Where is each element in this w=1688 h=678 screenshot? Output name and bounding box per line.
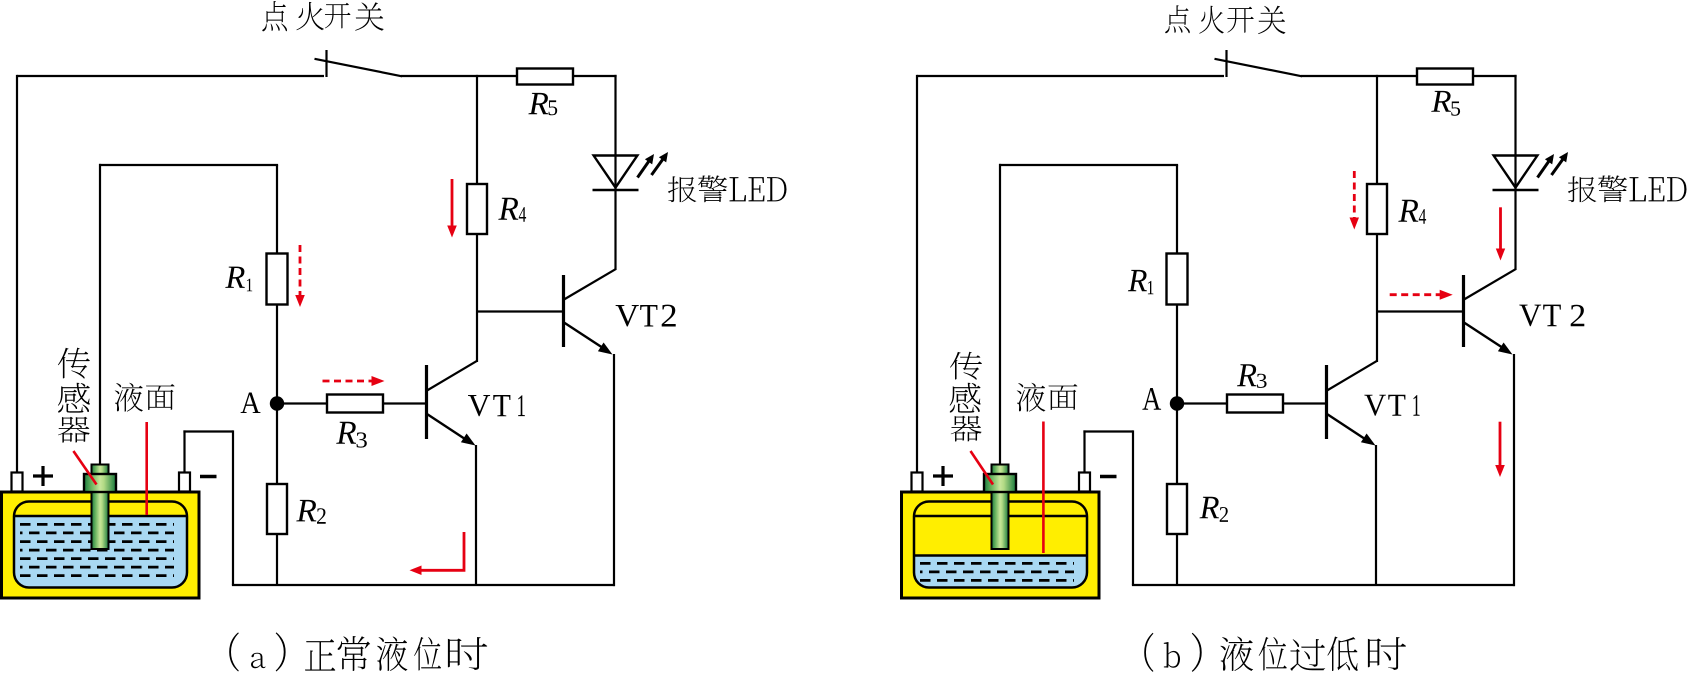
wire VT2 emitter vertical (b) (1513, 354, 1515, 586)
pointer line 传感器 (b) (971, 451, 994, 485)
caption (a) 正常液位时 (229, 632, 239, 671)
wire loop top to R1 (a) (276, 165, 278, 254)
tank inner outline (a) (14, 502, 187, 588)
label 传感器 (a) (58, 348, 90, 379)
pointer line 液面 (b) (1042, 422, 1045, 554)
node A (a) (270, 396, 284, 410)
LED D1 (b) (1494, 156, 1538, 188)
label VT1 (a) (468, 395, 490, 416)
label R4 (b) (1398, 200, 1418, 222)
label 报警LED (b) (1568, 176, 1596, 202)
wire R1 to node A to R2 (a) (276, 305, 278, 485)
wire R4 down (b) (1376, 234, 1378, 362)
resistor R3 (a) (327, 395, 383, 413)
LED light arrows (b) (1538, 161, 1550, 178)
label 点火开关 (b) (1165, 5, 1190, 33)
resistor R1 (b) (1167, 254, 1188, 305)
wire R2 to bottom rail (a) (276, 534, 278, 585)
wire inner loop horizontal (b) (999, 164, 1178, 166)
pointer line 液面 (a) (145, 422, 148, 515)
tank rim line (b) (914, 515, 1087, 517)
wire LED to VT2 collector (a) (614, 190, 616, 270)
resistor R5 (a) (517, 69, 573, 85)
label R2 (a) (296, 500, 316, 521)
liquid dashes (a) (20, 523, 174, 526)
LED D1 (a) (594, 156, 638, 188)
pointer line 传感器 (a) (73, 451, 96, 485)
label 液面 (a) (115, 383, 143, 412)
wire switch to node (a) (401, 75, 517, 77)
label R3 (b) (1237, 364, 1257, 386)
wire top rail (b) (917, 75, 1224, 77)
wire right vertical to LED (b) (1514, 75, 1516, 190)
tank liquid (a) (14, 502, 187, 588)
label R2 (b) (1199, 497, 1219, 518)
wire right vertical to LED (a) (614, 75, 616, 190)
wire loop top to R1 (b) (1176, 165, 1178, 254)
resistor R4 (b) (1367, 184, 1387, 234)
label − (a) (200, 475, 217, 478)
LED light arrows (a) (638, 161, 650, 178)
wire VT2 emitter vertical (a) (613, 354, 615, 586)
label R5 (a) (528, 93, 548, 114)
current arrow R4 solid (a) (451, 179, 454, 227)
wire node A to R3 (b) (1184, 402, 1227, 404)
tank inner outline (b) (914, 502, 1087, 588)
label R1 (b) (1128, 270, 1147, 291)
label 点火开关 (a) (262, 1, 287, 31)
battery terminal negative (b) (1079, 473, 1090, 492)
battery terminal negative (a) (179, 473, 190, 492)
transistor VT2 (b) (1462, 275, 1465, 347)
wire switch to node (b) (1301, 75, 1417, 77)
label 液面 (b) (1017, 383, 1046, 412)
wire R1 to node A to R2 (b) (1176, 305, 1178, 485)
wire R3 to VT1 base (b) (1283, 402, 1327, 404)
wire R5 to corner (b) (1473, 75, 1517, 77)
label VT2 (a) (616, 305, 639, 326)
label VT2 (b) (1519, 305, 1541, 327)
sensor probe (a) (92, 465, 109, 475)
resistor R1 (a) (267, 254, 288, 305)
wire R5 to corner (a) (573, 75, 617, 77)
label R4 (a) (498, 198, 518, 220)
wire bottom rail (a) (232, 584, 615, 586)
resistor R4 (a) (467, 184, 487, 234)
current arrow LED solid (b) (1499, 207, 1502, 250)
transistor VT1 (a) (425, 365, 428, 439)
resistor R2 (a) (267, 484, 287, 534)
node A (b) (1170, 396, 1184, 410)
liquid dashes (b) (920, 562, 1074, 565)
label + (a) (33, 474, 53, 477)
wire battery negative lead (b) (1083, 430, 1085, 473)
wire sensor lead (b) (999, 164, 1001, 465)
wire R3 to VT1 base (a) (383, 402, 427, 404)
wire R4 down (a) (476, 234, 478, 362)
wire junction vertical R4 branch (a) (476, 75, 478, 184)
label + (b) (933, 474, 953, 477)
tank liquid (b) (914, 502, 1087, 588)
label R5 (b) (1431, 91, 1451, 112)
tank body (a) (2, 492, 200, 598)
battery terminal positive (b) (912, 473, 923, 492)
tank rim line (a) (14, 515, 187, 517)
current arrow R3 dashed (a) (323, 380, 372, 383)
wire inner loop horizontal (a) (99, 164, 278, 166)
wire battery negative lead (a) (183, 430, 185, 473)
wire sensor lead (a) (99, 164, 101, 465)
label A (a) (241, 393, 261, 413)
caption (b) 液位过低时 (1144, 633, 1153, 672)
battery terminal positive (a) (12, 473, 23, 492)
label 报警LED (a) (668, 176, 696, 202)
wire R2 to bottom rail (b) (1176, 534, 1178, 585)
switch S ignition (a) (325, 50, 327, 77)
label VT1 (b) (1364, 395, 1385, 416)
wire VT1 emitter vertical (b) (1375, 445, 1377, 585)
label R3 (a) (336, 422, 356, 444)
label A (b) (1142, 388, 1161, 410)
transistor VT1 (b) (1325, 365, 1328, 439)
wire junction vertical R4 branch (b) (1376, 75, 1378, 184)
current arrow R1 dashed (a) (299, 245, 302, 296)
current arrow R4 dashed (b) (1353, 171, 1356, 219)
label − (b) (1100, 475, 1117, 478)
wire top rail (a) (17, 75, 324, 77)
resistor R5 (b) (1417, 69, 1473, 85)
current arrow bottom L-shape (a) (418, 532, 464, 570)
wire LED to VT2 collector (b) (1514, 190, 1516, 270)
switch S ignition (b) (1225, 50, 1227, 77)
wire bottom rail (b) (1132, 584, 1515, 586)
current arrow VT2 emitter solid (b) (1499, 422, 1502, 467)
label R1 (a) (225, 267, 245, 288)
label 传感器 (b) (950, 352, 982, 380)
wire node A to R3 (a) (284, 402, 327, 404)
transistor VT2 (a) (562, 275, 565, 347)
wire VT1 emitter vertical (a) (475, 445, 477, 585)
tank body (b) (902, 492, 1100, 598)
resistor R2 (b) (1167, 484, 1187, 534)
current arrow VT2 base dashed (b) (1390, 293, 1441, 296)
wire battery positive lead (a) (16, 75, 18, 473)
tank liquid surface line (b) (914, 554, 1087, 556)
wire battery positive lead (b) (916, 75, 918, 473)
sensor probe (b) (992, 465, 1009, 475)
resistor R3 (b) (1227, 395, 1283, 413)
